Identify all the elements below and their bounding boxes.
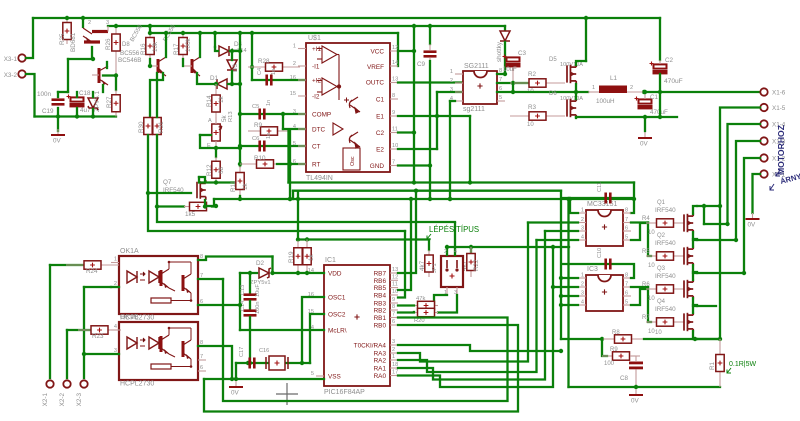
junction <box>559 303 563 307</box>
svg-text:BC546B: BC546B <box>118 57 141 64</box>
wire <box>287 131 289 183</box>
junction <box>428 163 432 167</box>
mosfet Q4 IRF540 <box>684 312 693 333</box>
junction <box>702 204 706 208</box>
svg-text:IRF540: IRF540 <box>655 240 676 247</box>
sheet origin cross <box>276 383 298 405</box>
svg-text:2: 2 <box>581 217 584 223</box>
wire emitter T4 <box>165 33 167 57</box>
TL494 internals <box>317 46 343 135</box>
svg-text:R4: R4 <box>642 216 650 222</box>
svg-text:D8: D8 <box>122 42 130 48</box>
junction <box>693 337 697 341</box>
junction <box>56 114 60 118</box>
svg-text:9: 9 <box>392 110 395 116</box>
wire Q6 drain <box>575 92 577 99</box>
wire to X1-6 <box>644 91 764 93</box>
junction <box>409 197 413 201</box>
junction <box>412 49 416 53</box>
junction <box>305 271 309 275</box>
wire IC3 pin3 <box>561 295 578 297</box>
junction <box>114 73 118 77</box>
wire E2 <box>398 148 437 150</box>
svg-text:RB2: RB2 <box>374 308 387 315</box>
svg-text:C4: C4 <box>257 68 263 75</box>
wire Q7 gate <box>148 192 191 194</box>
svg-text:7: 7 <box>392 160 395 166</box>
wire x252 down <box>251 33 253 80</box>
svg-text:10: 10 <box>527 122 534 128</box>
svg-text:RB7: RB7 <box>374 271 387 278</box>
wire <box>84 286 111 288</box>
svg-text:7: 7 <box>200 354 203 360</box>
wire DTC <box>283 128 306 130</box>
svg-text:1n: 1n <box>266 133 272 139</box>
svg-text:R1: R1 <box>709 361 716 370</box>
junction <box>503 72 507 76</box>
svg-text:4: 4 <box>581 300 584 306</box>
wire X1-3 down <box>736 141 760 240</box>
wire node <box>68 58 93 60</box>
svg-text:ZPY5.1: ZPY5.1 <box>94 91 101 112</box>
junction <box>238 144 242 148</box>
svg-text:C13: C13 <box>240 285 246 295</box>
junction <box>146 191 150 195</box>
wire cap top feed <box>67 59 69 92</box>
svg-text:X2-3: X2-3 <box>76 393 83 407</box>
wire to shottky <box>504 26 506 30</box>
junction <box>574 90 578 94</box>
junction <box>65 16 69 20</box>
svg-text:10: 10 <box>655 330 662 336</box>
wire R30 to RB4 rail <box>148 135 405 231</box>
junction <box>250 31 254 35</box>
junction <box>238 162 242 166</box>
junction <box>155 204 159 208</box>
svg-text:1: 1 <box>293 44 296 50</box>
svg-text:GND: GND <box>370 163 385 170</box>
wire CT net <box>240 145 306 147</box>
wire 0V bottom rail <box>35 115 117 117</box>
wire RB7 <box>398 191 416 273</box>
junction <box>281 112 285 116</box>
TL494 oscillator box <box>343 148 360 170</box>
junction <box>718 204 722 208</box>
wire X3-1 to top bus <box>26 18 33 58</box>
wire BD681 emitter down <box>91 47 93 59</box>
capacitor C19 100n <box>52 98 65 105</box>
wire Q6 source <box>575 117 577 118</box>
wire D4 anode <box>215 47 218 51</box>
junction <box>81 16 85 20</box>
mosfet Q5 <box>567 64 576 85</box>
wire X1-2 down <box>744 158 760 272</box>
junction <box>288 162 292 166</box>
junction <box>412 130 416 134</box>
svg-text:SG2111: SG2111 <box>464 63 489 70</box>
wire to SG2111 pin3 <box>437 91 463 93</box>
resistor R1 0.1R <box>716 339 724 387</box>
junction <box>584 16 588 20</box>
svg-text:11: 11 <box>392 282 398 288</box>
resistor R19 <box>294 240 302 274</box>
connector X1-1 <box>760 170 767 177</box>
svg-text:-I1: -I1 <box>312 64 320 71</box>
junction <box>296 237 300 241</box>
svg-text:1: 1 <box>450 69 453 75</box>
wire RA4 net <box>398 345 561 351</box>
wire COMP net <box>240 113 306 115</box>
junction <box>469 245 473 249</box>
svg-text:14: 14 <box>392 60 398 66</box>
inductor L1 100uH <box>588 86 644 94</box>
svg-text:Q4: Q4 <box>657 299 666 305</box>
svg-text:OUTC: OUTC <box>366 80 384 87</box>
svg-text:R6: R6 <box>642 282 650 288</box>
svg-text:R13: R13 <box>228 111 234 122</box>
junction <box>214 180 218 184</box>
svg-text:C5: C5 <box>252 104 259 110</box>
wire collector T5 to D1 <box>197 73 215 84</box>
ground 0V sense <box>629 389 643 405</box>
svg-text:R8: R8 <box>612 330 620 336</box>
junction <box>114 24 118 28</box>
svg-text:OSC2: OSC2 <box>328 312 346 319</box>
svg-text:C1: C1 <box>650 94 659 101</box>
svg-text:1n: 1n <box>266 100 272 106</box>
connector X2-1 <box>46 380 53 387</box>
svg-text:C8: C8 <box>620 375 629 382</box>
wire <box>76 92 78 97</box>
wire source rail <box>576 116 677 118</box>
wire <box>76 108 78 117</box>
svg-text:RA1: RA1 <box>374 366 387 373</box>
connector X1-6 <box>760 88 767 95</box>
junction <box>238 197 242 201</box>
svg-text:2: 2 <box>392 347 395 353</box>
svg-text:8: 8 <box>392 93 395 99</box>
svg-text:1k5: 1k5 <box>185 211 196 218</box>
capacitor C9 <box>424 50 437 57</box>
wire Q4 drain <box>693 305 697 313</box>
wire base node <box>103 74 116 76</box>
capacitor C3 10uF <box>503 55 521 68</box>
svg-text:100k: 100k <box>185 37 192 52</box>
junction <box>214 204 218 208</box>
junction <box>296 271 300 275</box>
svg-text:R26: R26 <box>105 38 112 50</box>
svg-text:shottky: shottky <box>496 41 503 62</box>
wire x298 link <box>297 191 299 199</box>
junction <box>742 271 746 275</box>
junction <box>238 82 242 86</box>
optocoupler OK1B HCPL2730 <box>119 322 198 380</box>
capacitor C4 1n <box>265 75 272 86</box>
svg-text:MOTORHOZ: MOTORHOZ <box>776 125 786 175</box>
wire DIP pin1 <box>434 295 447 306</box>
connector X1-3 <box>760 137 767 144</box>
svg-text:2: 2 <box>581 282 584 288</box>
wire rail y190 <box>293 190 561 192</box>
wire RB0 net <box>204 325 518 412</box>
wire to IC2 pin3 <box>545 230 578 232</box>
svg-text:10: 10 <box>648 230 655 236</box>
junction <box>288 197 292 201</box>
wire x568 down <box>567 199 569 387</box>
wire Q2 source <box>693 265 697 273</box>
wire OUTC to SG2111 <box>398 81 463 83</box>
wire wiper <box>200 134 211 136</box>
wire RB3 to R20 <box>398 304 414 306</box>
svg-text:C18: C18 <box>79 90 91 97</box>
wire RA1 net <box>398 231 545 380</box>
wire Q2 drain <box>693 239 697 247</box>
wire <box>282 114 284 129</box>
svg-text:C9: C9 <box>417 61 426 68</box>
wire IC3 pin1 <box>561 277 578 279</box>
svg-text:7: 7 <box>625 217 628 223</box>
svg-text:6: 6 <box>293 159 296 165</box>
wire rail y182 <box>289 181 635 183</box>
svg-text:RT: RT <box>312 162 320 169</box>
resistor R3 10 <box>510 112 565 120</box>
svg-text:+I1: +I1 <box>312 46 322 53</box>
transistor T4 BC556 <box>150 57 166 76</box>
svg-text:C3: C3 <box>518 50 527 57</box>
resistor R17 100k <box>179 33 187 59</box>
junction <box>718 337 722 341</box>
junction <box>642 90 646 94</box>
junction <box>230 82 234 86</box>
wire supply stub <box>703 206 705 224</box>
wire pin7 to R2 <box>497 82 530 84</box>
svg-text:1: 1 <box>114 257 117 263</box>
diode D1 <box>217 79 227 89</box>
resistor R21 4k7 <box>425 250 433 277</box>
svg-text:1k: 1k <box>308 253 315 261</box>
svg-text:IRF540: IRF540 <box>655 273 676 280</box>
svg-text:R30: R30 <box>138 121 145 133</box>
svg-text:R24: R24 <box>86 268 98 275</box>
svg-text:10uF: 10uF <box>503 67 517 73</box>
junction <box>643 90 647 94</box>
svg-text:CT: CT <box>312 144 321 151</box>
junction <box>725 222 729 226</box>
junction <box>91 57 95 61</box>
junction <box>448 197 452 201</box>
wire bridge mid <box>697 272 744 274</box>
svg-text:+I2: +I2 <box>312 78 322 85</box>
svg-text:5: 5 <box>499 95 502 101</box>
wire Q3 source <box>693 298 697 306</box>
junction <box>566 197 570 201</box>
resistor R28 <box>248 63 300 71</box>
svg-text:5: 5 <box>625 300 628 306</box>
wire to ground <box>57 117 59 132</box>
wire to IC2 pin4 <box>537 239 579 241</box>
svg-text:C6: C6 <box>252 136 259 142</box>
junction <box>551 245 555 249</box>
svg-text:10: 10 <box>648 296 655 302</box>
wire x430 lower <box>429 61 431 199</box>
svg-text:R9: R9 <box>610 347 618 353</box>
svg-text:D1: D1 <box>210 75 219 82</box>
svg-text:E2: E2 <box>376 147 384 154</box>
svg-text:4: 4 <box>581 235 584 241</box>
junction <box>238 31 242 35</box>
svg-text:IRF540: IRF540 <box>655 207 676 214</box>
wire X3-2 down <box>26 74 35 117</box>
svg-text:Q2: Q2 <box>657 233 666 239</box>
diode D2 zener ZPY5v1 <box>259 268 271 278</box>
wire Q5 drain <box>576 61 586 65</box>
svg-text:T0CKI/RA4: T0CKI/RA4 <box>354 343 387 350</box>
capacitor C8 <box>629 356 643 387</box>
resistor R2 10 <box>510 79 565 87</box>
svg-text:6: 6 <box>200 365 203 371</box>
svg-text:8: 8 <box>625 273 628 279</box>
svg-text:12: 12 <box>392 274 398 280</box>
svg-text:JP1: JP1 <box>432 263 438 273</box>
capacitor C1 470uF <box>635 97 653 110</box>
junction <box>305 237 309 241</box>
wire D3 bottom <box>231 71 233 84</box>
wire to R9b <box>602 339 607 356</box>
svg-text:X2-1: X2-1 <box>42 393 49 407</box>
svg-text:C19: C19 <box>42 108 54 115</box>
TL494 output transistor 2 <box>349 132 360 148</box>
svg-text:0V: 0V <box>748 222 757 229</box>
junction <box>428 24 432 28</box>
svg-text:R22: R22 <box>473 259 480 271</box>
svg-text:D6: D6 <box>549 91 557 97</box>
crystal Q2 <box>266 356 288 370</box>
svg-text:VCC: VCC <box>371 49 385 56</box>
junction <box>238 180 242 184</box>
wire pin2 <box>111 286 119 288</box>
wire collector T4 down <box>150 73 163 117</box>
svg-text:6: 6 <box>625 226 628 232</box>
schottky diode D7 <box>500 31 510 41</box>
svg-text:R5: R5 <box>642 249 650 255</box>
wire base T5 <box>182 59 184 66</box>
junction <box>214 82 218 86</box>
svg-text:4: 4 <box>293 124 296 130</box>
ground 0V X1-1 <box>746 213 760 229</box>
resistor R4 10 <box>646 219 684 227</box>
resistor R9 100 <box>602 352 640 360</box>
junction <box>238 112 242 116</box>
wire LEPES net <box>447 246 569 248</box>
svg-text:10k: 10k <box>152 41 159 52</box>
svg-text:PIC16F84AP: PIC16F84AP <box>324 389 365 396</box>
svg-text:5k: 5k <box>221 114 228 122</box>
svg-text:C10: C10 <box>597 248 603 258</box>
wire to R7 <box>648 287 651 322</box>
resistor R9 <box>248 127 290 135</box>
wire C2 bottom <box>659 74 661 117</box>
connector X2-3 <box>80 380 87 387</box>
svg-text:1: 1 <box>392 354 395 360</box>
svg-text:2: 2 <box>88 20 91 26</box>
resistor R27 <box>112 90 120 117</box>
junction <box>230 377 234 381</box>
resistor R24 <box>66 261 119 269</box>
svg-text:Q1: Q1 <box>657 200 666 206</box>
wire to R5 <box>648 223 651 257</box>
wire Q1 drain <box>693 206 697 214</box>
wire OK1A pin7 <box>198 278 223 280</box>
svg-text:R17: R17 <box>173 43 180 55</box>
svg-text:X2-2: X2-2 <box>59 393 66 407</box>
svg-text:U$1: U$1 <box>308 35 321 42</box>
svg-text:0V: 0V <box>640 141 649 148</box>
junction <box>181 31 185 35</box>
svg-text:8: 8 <box>625 208 628 214</box>
wire D1 anode <box>228 83 240 85</box>
junction <box>238 49 242 53</box>
wire x290 down <box>289 131 291 199</box>
wire Vcc drivers <box>563 197 634 199</box>
junction <box>559 294 563 298</box>
wire IC3 out7 <box>631 286 648 288</box>
junction <box>248 271 252 275</box>
resistor R25 <box>63 18 71 44</box>
svg-text:7: 7 <box>625 282 628 288</box>
svg-text:0V: 0V <box>53 138 62 145</box>
diode D3 <box>227 60 237 70</box>
svg-text:7: 7 <box>392 312 395 318</box>
wire rail to VREF pin <box>397 33 399 66</box>
resistor R18 1k5 <box>184 202 212 210</box>
zener diode D10 ZPY5.1 <box>88 98 98 110</box>
wire Q4 source to R1 <box>697 338 720 340</box>
svg-text:D2: D2 <box>256 260 265 267</box>
svg-text:R31: R31 <box>158 121 165 133</box>
wire C10 net <box>563 264 634 278</box>
wire <box>497 73 505 75</box>
wire <box>58 91 68 93</box>
svg-text:D4: D4 <box>234 41 243 48</box>
svg-text:16: 16 <box>290 75 296 81</box>
wire +I2 net <box>252 79 306 81</box>
resistor R22 4k7 <box>467 247 475 277</box>
svg-text:RA3: RA3 <box>374 351 387 358</box>
junction <box>734 238 738 242</box>
svg-text:100n: 100n <box>37 91 52 98</box>
IC U2 SG2111 box <box>463 71 497 104</box>
wire to D4 <box>214 33 216 47</box>
wire RB1 net <box>223 279 508 401</box>
junction <box>511 81 515 85</box>
svg-text:RB0: RB0 <box>374 323 387 330</box>
capacitor C5 1n <box>258 109 265 120</box>
wire RA3 net <box>398 223 528 362</box>
svg-text:5: 5 <box>311 371 314 377</box>
junction <box>214 146 218 150</box>
mosfet Q2 IRF540 <box>684 246 693 267</box>
driver IC3 MC33151 <box>586 275 623 311</box>
svg-text:C11: C11 <box>597 182 603 192</box>
wire R22 top <box>470 247 472 256</box>
svg-text:C1: C1 <box>376 97 385 104</box>
junction <box>203 204 207 208</box>
wire x298 down <box>297 199 299 240</box>
svg-text:IC1: IC1 <box>325 257 336 264</box>
svg-text:E1: E1 <box>376 114 384 121</box>
wire vertical bus x240 <box>239 33 241 166</box>
svg-text:DTC: DTC <box>312 127 326 134</box>
